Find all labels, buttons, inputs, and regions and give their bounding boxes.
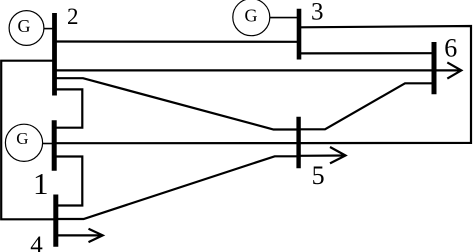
generator G3 connector (270, 17, 298, 19)
wire line 2-5 (55, 78, 298, 129)
wire line 3-5 (bus5 right, around right edge, into bus3) (298, 26, 471, 143)
svg-text:G: G (16, 129, 28, 148)
svg-text:4: 4 (30, 232, 43, 252)
wire line 2-3 (55, 40, 298, 42)
bus 4 bar (53, 195, 58, 247)
wire line 2-4 (bus2 left, down left edge, into bus4) (1, 61, 53, 220)
generator G1 circle (5, 124, 42, 161)
load arrow at bus 6 (434, 62, 461, 78)
load arrow at bus 5 (299, 147, 346, 163)
svg-text:G: G (18, 16, 31, 36)
bus 2 bar (52, 13, 57, 96)
svg-text:5: 5 (312, 161, 325, 190)
bus 1 bar (52, 120, 57, 171)
bus 6 bar (432, 42, 437, 94)
svg-text:1: 1 (33, 166, 49, 201)
svg-text:2: 2 (67, 4, 79, 29)
generator G3 circle (233, 0, 270, 36)
svg-text:6: 6 (444, 34, 457, 63)
bus 3 bar (297, 9, 302, 60)
wire line 1-5 (horizontal into bus 5) (55, 142, 298, 144)
wire line 4-5 (56, 156, 298, 219)
generator G1 connector (43, 143, 53, 145)
load arrow at bus 4 (56, 229, 103, 242)
generator G2 circle (9, 11, 44, 46)
svg-text:G: G (245, 6, 258, 26)
wire line 5-6 (299, 83, 434, 129)
wire line 2-6 (long horizontal, continues as load arrow at bus6) (55, 69, 434, 71)
generator G2 connector (44, 28, 54, 30)
bus 5 bar (296, 117, 300, 168)
wire line 1-2 (U hook right of buses) (55, 89, 82, 127)
svg-text:3: 3 (311, 0, 324, 26)
wire line 1-4 (U hook right of buses) (55, 157, 82, 206)
wire line 3-6 (300, 52, 434, 54)
